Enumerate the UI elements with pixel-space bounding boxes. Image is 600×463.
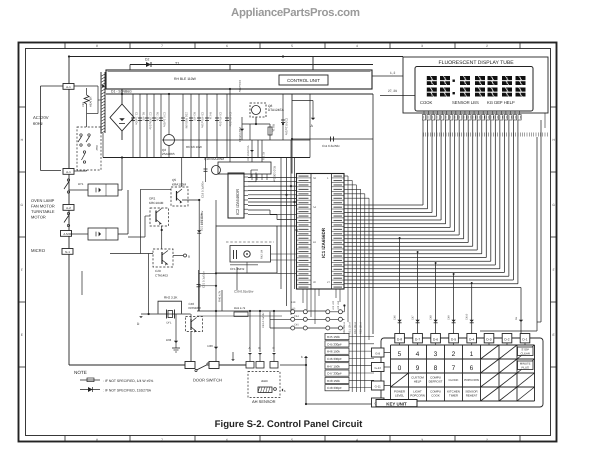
svg-text:27, 29: 27, 29 bbox=[388, 89, 397, 93]
svg-text:C21 0.1u/16v: C21 0.1u/16v bbox=[202, 271, 206, 288]
svg-text:A-1: A-1 bbox=[66, 85, 71, 89]
svg-text:C45: C45 bbox=[294, 324, 299, 327]
svg-text:4: 4 bbox=[356, 44, 358, 48]
svg-text:9: 9 bbox=[416, 365, 420, 372]
svg-text:DOOR SWITCH: DOOR SWITCH bbox=[193, 378, 222, 383]
svg-text:IC2 IZA646DR: IC2 IZA646DR bbox=[235, 189, 240, 215]
svg-text:C4 47u/16v: C4 47u/16v bbox=[229, 112, 233, 127]
svg-text:Q10 KBA105M: Q10 KBA105M bbox=[204, 157, 225, 161]
svg-text:2: 2 bbox=[452, 351, 456, 358]
svg-text:TIMER: TIMER bbox=[449, 394, 458, 398]
svg-text:A-2: A-2 bbox=[66, 206, 71, 210]
svg-text:D21 1SS270A: D21 1SS270A bbox=[200, 213, 204, 231]
svg-text:R8 1k: R8 1k bbox=[272, 124, 276, 132]
svg-text:C46: C46 bbox=[394, 315, 397, 320]
svg-text:C20: C20 bbox=[155, 269, 161, 273]
svg-text:6: 6 bbox=[226, 44, 228, 48]
svg-text:8: 8 bbox=[96, 44, 98, 48]
svg-text:E: E bbox=[21, 333, 23, 337]
svg-text:MOTOR: MOTOR bbox=[31, 215, 46, 220]
svg-text:C45 330pF: C45 330pF bbox=[327, 342, 342, 346]
svg-text:MICRO: MICRO bbox=[31, 248, 46, 253]
svg-text:D1 - S1NB6G: D1 - S1NB6G bbox=[111, 90, 132, 94]
svg-text:3: 3 bbox=[434, 351, 438, 358]
svg-text:R6 5/6 10W: R6 5/6 10W bbox=[186, 145, 202, 149]
svg-text:Z-M: Z-M bbox=[63, 232, 69, 236]
svg-text:4: 4 bbox=[356, 438, 358, 442]
svg-text:L05: L05 bbox=[291, 308, 296, 311]
svg-text:B: B bbox=[259, 346, 261, 350]
svg-text:R53 15k A: R53 15k A bbox=[360, 322, 363, 334]
svg-text:G-11: G-11 bbox=[375, 385, 382, 389]
svg-text:IC1 IZA656DR: IC1 IZA656DR bbox=[321, 227, 326, 258]
svg-text:DEFROST: DEFROST bbox=[429, 380, 443, 384]
svg-text:F: F bbox=[553, 268, 555, 272]
svg-text:C49: C49 bbox=[448, 315, 451, 320]
svg-text:7: 7 bbox=[161, 438, 163, 442]
svg-text:C47: C47 bbox=[412, 315, 415, 320]
svg-text:SENSOR LBS: SENSOR LBS bbox=[452, 100, 479, 105]
svg-text:G-14: G-14 bbox=[374, 366, 381, 370]
svg-text:C10 0.1u/16v: C10 0.1u/16v bbox=[285, 118, 289, 136]
svg-text:C46 330pF: C46 330pF bbox=[327, 357, 342, 361]
svg-text:R3 470: R3 470 bbox=[193, 112, 197, 121]
svg-text:CLOCK: CLOCK bbox=[449, 378, 459, 382]
svg-text:T1: T1 bbox=[175, 62, 179, 66]
svg-text:HELP: HELP bbox=[414, 380, 422, 384]
svg-text:C48: C48 bbox=[430, 315, 433, 320]
svg-text:2SA966S: 2SA966S bbox=[162, 152, 175, 156]
svg-text:5: 5 bbox=[291, 44, 293, 48]
svg-text:B: B bbox=[188, 255, 190, 259]
svg-text:CONTROL UNIT: CONTROL UNIT bbox=[287, 78, 320, 83]
svg-text:L03 L04: L03 L04 bbox=[337, 300, 340, 310]
svg-text:COOK: COOK bbox=[431, 394, 440, 398]
svg-text:N-1: N-1 bbox=[65, 250, 70, 254]
svg-text:RH2 3.3K: RH2 3.3K bbox=[164, 296, 178, 300]
svg-text:3: 3 bbox=[421, 438, 423, 442]
svg-text:CLEAR: CLEAR bbox=[521, 351, 530, 355]
svg-text:POPCORN: POPCORN bbox=[464, 378, 479, 382]
svg-text:CTA1403: CTA1403 bbox=[155, 274, 168, 278]
svg-text:R4 1k: R4 1k bbox=[209, 112, 213, 120]
svg-text:C410: C410 bbox=[466, 313, 469, 320]
svg-text:D-6: D-6 bbox=[433, 338, 438, 342]
svg-text:A-1: A-1 bbox=[66, 170, 71, 174]
svg-text:SW2: SW2 bbox=[95, 145, 98, 151]
svg-text:ZD1 RD5.6M: ZD1 RD5.6M bbox=[185, 112, 189, 129]
svg-text:D-1: D-1 bbox=[522, 338, 527, 342]
svg-text:LEVEL: LEVEL bbox=[395, 394, 404, 398]
svg-text:KRC104M: KRC104M bbox=[149, 201, 164, 205]
svg-text:AH SENSOR: AH SENSOR bbox=[252, 399, 276, 404]
svg-text:C5 470u/16v: C5 470u/16v bbox=[201, 112, 205, 128]
svg-text:AppliancePartsPros.com: AppliancePartsPros.com bbox=[231, 7, 360, 19]
svg-text:D33: D33 bbox=[166, 338, 172, 342]
svg-text:C18 0.1u/50v: C18 0.1u/50v bbox=[201, 181, 205, 198]
svg-text:3: 3 bbox=[421, 44, 423, 48]
svg-text:HEATER: HEATER bbox=[90, 97, 93, 107]
svg-text:C6 47u/16v: C6 47u/16v bbox=[219, 112, 223, 127]
svg-text:D2: D2 bbox=[145, 58, 149, 62]
svg-text:R2 12k: R2 12k bbox=[156, 112, 160, 121]
svg-text:1, 2: 1, 2 bbox=[390, 71, 396, 75]
svg-text:L01 L02: L01 L02 bbox=[332, 300, 335, 310]
svg-text:KRA105M: KRA105M bbox=[172, 182, 187, 186]
svg-text:G-8: G-8 bbox=[375, 352, 380, 356]
svg-text:RH BLE 110W: RH BLE 110W bbox=[174, 77, 197, 81]
svg-text:R11 1k: R11 1k bbox=[263, 151, 266, 160]
svg-text:POPCORN: POPCORN bbox=[410, 394, 425, 398]
svg-text:FLUORESCENT DISPLAY TUBE: FLUORESCENT DISPLAY TUBE bbox=[439, 60, 515, 66]
svg-text:8: 8 bbox=[434, 365, 438, 372]
svg-text:D-7: D-7 bbox=[415, 338, 420, 342]
svg-text:KRN10M: KRN10M bbox=[189, 306, 202, 310]
svg-text:R48 150k: R48 150k bbox=[327, 379, 340, 383]
svg-text:D-8: D-8 bbox=[397, 338, 402, 342]
svg-text:C48 330pF: C48 330pF bbox=[327, 386, 342, 390]
svg-text:OVEN LAMP: OVEN LAMP bbox=[31, 198, 55, 203]
svg-text:C47 330pF: C47 330pF bbox=[327, 372, 342, 376]
svg-text:5: 5 bbox=[291, 438, 293, 442]
svg-text:C9 1u/50v: C9 1u/50v bbox=[238, 80, 241, 93]
svg-text:F: F bbox=[21, 268, 23, 272]
svg-text:D-3: D-3 bbox=[486, 338, 491, 342]
svg-text:R46 150k: R46 150k bbox=[327, 350, 340, 354]
svg-text:C44: C44 bbox=[294, 315, 299, 318]
svg-text:13K: 13K bbox=[291, 301, 296, 304]
svg-text:D-2: D-2 bbox=[504, 338, 509, 342]
svg-text:C3 0.1u/50v: C3 0.1u/50v bbox=[163, 112, 167, 128]
svg-text:: IF NOT SPECIFIED, 1/4 W ±5%: : IF NOT SPECIFIED, 1/4 W ±5% bbox=[103, 379, 153, 383]
svg-text:D-5: D-5 bbox=[451, 338, 456, 342]
svg-text:FAN MOTOR: FAN MOTOR bbox=[31, 204, 55, 209]
svg-text:4: 4 bbox=[416, 351, 420, 358]
svg-text:Figure S-2. Control Panel Circ: Figure S-2. Control Panel Circuit bbox=[215, 419, 363, 430]
svg-text:AC120V: AC120V bbox=[33, 115, 49, 120]
svg-text:DF1: DF1 bbox=[167, 322, 172, 325]
svg-text:TURNTABLE: TURNTABLE bbox=[31, 209, 55, 214]
svg-text:D-4: D-4 bbox=[469, 338, 474, 342]
svg-text:0: 0 bbox=[398, 365, 402, 372]
svg-text:2: 2 bbox=[486, 44, 488, 48]
svg-text:R47 150k: R47 150k bbox=[327, 364, 340, 368]
svg-text:R40 4.7k: R40 4.7k bbox=[218, 290, 222, 302]
svg-text:E: E bbox=[553, 333, 555, 337]
svg-text:C39 0.01u/1kv: C39 0.01u/1kv bbox=[234, 290, 254, 294]
svg-text:5: 5 bbox=[398, 351, 402, 358]
svg-text:CF1 4MHz: CF1 4MHz bbox=[230, 267, 245, 271]
svg-text:C43 4.7u/16v: C43 4.7u/16v bbox=[262, 312, 265, 328]
svg-text:D5 1SS270A: D5 1SS270A bbox=[247, 145, 250, 160]
svg-text:R51 15k A: R51 15k A bbox=[349, 322, 352, 334]
svg-text:KEY UNIT: KEY UNIT bbox=[386, 401, 407, 406]
svg-text:8: 8 bbox=[96, 438, 98, 442]
svg-text:6: 6 bbox=[226, 438, 228, 442]
svg-text:REHEAT: REHEAT bbox=[466, 394, 478, 398]
svg-text:: IF NOT SPECIFIED, 1SS270A: : IF NOT SPECIFIED, 1SS270A bbox=[103, 389, 152, 393]
svg-text:C1 1u/50v: C1 1u/50v bbox=[135, 112, 139, 125]
svg-text:2: 2 bbox=[486, 438, 488, 442]
svg-text:R42 1M: R42 1M bbox=[261, 250, 264, 259]
svg-text:RY1: RY1 bbox=[78, 182, 84, 186]
svg-text:6: 6 bbox=[470, 365, 474, 372]
svg-text:A: A bbox=[249, 346, 251, 350]
svg-text:ZD2 HZ6B2: ZD2 HZ6B2 bbox=[238, 127, 242, 143]
svg-text:R45 150k: R45 150k bbox=[327, 335, 340, 339]
svg-text:PLUS: PLUS bbox=[522, 365, 529, 369]
svg-text:DTA124EA: DTA124EA bbox=[268, 108, 285, 112]
svg-text:COOK: COOK bbox=[420, 100, 433, 105]
svg-text:C2 1000u/16v: C2 1000u/16v bbox=[149, 112, 153, 130]
svg-text:NOTE: NOTE bbox=[74, 370, 87, 375]
svg-text:7: 7 bbox=[161, 44, 163, 48]
svg-text:1: 1 bbox=[470, 351, 474, 358]
svg-text:60Hz: 60Hz bbox=[33, 121, 43, 126]
svg-text:C11 6.3u/50v: C11 6.3u/50v bbox=[322, 144, 340, 148]
svg-text:R50 15k A: R50 15k A bbox=[343, 322, 346, 334]
svg-text:KG DEF HELP: KG DEF HELP bbox=[487, 100, 515, 105]
svg-text:R41 4.7k: R41 4.7k bbox=[234, 306, 246, 310]
svg-text:R1 470: R1 470 bbox=[142, 112, 146, 121]
svg-text:R10 100 1w: R10 100 1w bbox=[273, 166, 277, 182]
svg-text:VR1: VR1 bbox=[82, 101, 85, 107]
svg-text:D30: D30 bbox=[208, 344, 214, 348]
svg-text:7: 7 bbox=[452, 365, 456, 372]
svg-text:45kΩ: 45kΩ bbox=[261, 379, 268, 383]
